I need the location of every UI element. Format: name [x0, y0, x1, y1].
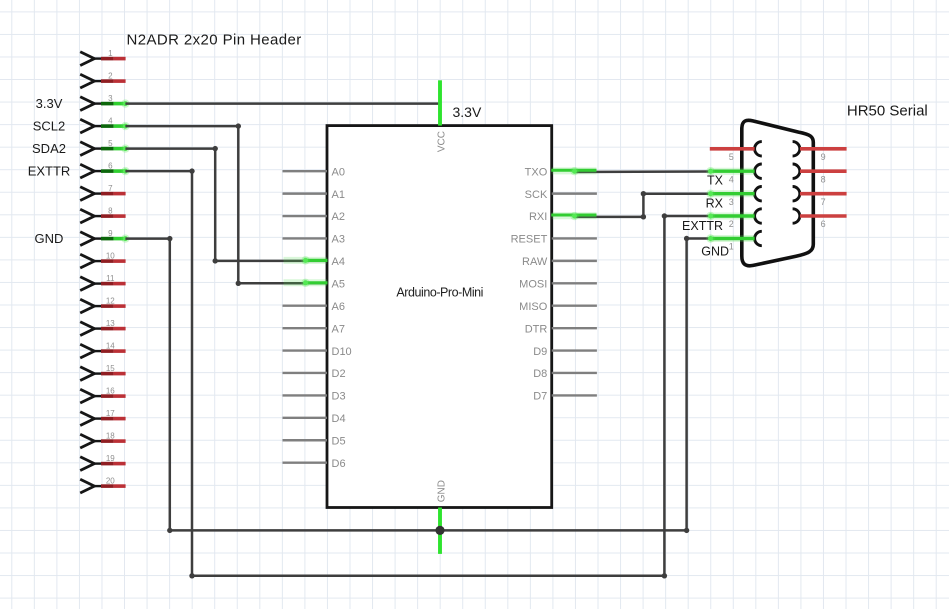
- svg-text:5: 5: [729, 152, 734, 162]
- svg-text:2: 2: [729, 219, 734, 229]
- svg-text:RXI: RXI: [529, 211, 547, 223]
- svg-text:17: 17: [106, 409, 115, 418]
- svg-text:A0: A0: [332, 166, 345, 178]
- svg-text:8: 8: [108, 207, 113, 216]
- U1 pin A1: [283, 189, 345, 201]
- svg-text:3.3V: 3.3V: [453, 104, 482, 120]
- wire 3.3V: header pin3 to VCC: [125, 102, 439, 105]
- J2 pin 5: [710, 142, 762, 162]
- header J1 pin 5: [80, 139, 129, 156]
- svg-text:7: 7: [108, 184, 113, 193]
- wire GND: header pin9 to HR50 pin1 via GND leg junction: [125, 236, 710, 533]
- U1 pin MOSI: [519, 279, 597, 291]
- J2 pin 4: [706, 164, 762, 184]
- svg-text:D8: D8: [533, 368, 547, 380]
- header J1 pin 15: [80, 364, 125, 381]
- wire RX: RXI to HR50 pin3: [575, 191, 711, 220]
- header J1 pin 16: [80, 387, 125, 404]
- svg-text:D7: D7: [533, 391, 547, 403]
- header J1 pin 4: [80, 117, 129, 134]
- U1 pin RESET: [511, 234, 597, 246]
- header J1 pin 6: [80, 162, 129, 179]
- svg-text:7: 7: [821, 197, 826, 207]
- svg-text:6: 6: [108, 162, 113, 171]
- svg-text:13: 13: [106, 319, 115, 328]
- svg-text:6: 6: [821, 219, 826, 229]
- svg-text:4: 4: [108, 117, 113, 126]
- svg-text:D2: D2: [332, 368, 346, 380]
- svg-text:19: 19: [106, 454, 115, 463]
- U1 pin MISO: [519, 301, 597, 313]
- svg-text:GND: GND: [437, 480, 448, 502]
- svg-text:RX: RX: [706, 196, 724, 210]
- U1 pin RXI (connected): [529, 211, 597, 223]
- U1 pin D2: [283, 368, 346, 380]
- svg-text:HR50 Serial: HR50 Serial: [847, 102, 928, 119]
- svg-text:D4: D4: [332, 413, 346, 425]
- U1 pin VCC (top): [437, 80, 448, 152]
- svg-text:A6: A6: [332, 301, 345, 313]
- svg-text:18: 18: [106, 432, 115, 441]
- svg-text:14: 14: [106, 342, 115, 351]
- svg-text:VCC: VCC: [437, 131, 448, 152]
- wire TX: TXO to HR50 pin4: [575, 170, 711, 173]
- svg-text:EXTTR: EXTTR: [682, 219, 723, 233]
- header J1 pin 1: [80, 49, 125, 66]
- U1 pin A5 (connected): [284, 279, 345, 291]
- J2 pin 3: [706, 187, 762, 207]
- J2 pin 2: [706, 209, 762, 229]
- header J1 pin 9: [80, 229, 129, 246]
- svg-text:A3: A3: [332, 234, 345, 246]
- U1 pin D4: [283, 413, 346, 425]
- svg-text:TX: TX: [707, 173, 724, 187]
- wire SDA2: header pin5 to A4: [125, 146, 327, 264]
- U1 pin RAW: [522, 256, 597, 268]
- svg-text:A2: A2: [332, 211, 345, 223]
- U1 pin D8: [533, 368, 597, 380]
- svg-text:RAW: RAW: [522, 256, 548, 268]
- header J1 pin 8: [80, 207, 125, 224]
- svg-text:MISO: MISO: [519, 301, 548, 313]
- J2 pin 6: [793, 209, 847, 229]
- header J1 pin 10: [80, 252, 125, 269]
- IC U1 Arduino-Pro-Mini body: [327, 126, 552, 508]
- header J1 pin 17: [80, 409, 125, 426]
- U1 pin A6: [283, 301, 345, 313]
- svg-text:DTR: DTR: [525, 323, 548, 335]
- svg-text:SCL2: SCL2: [33, 118, 66, 133]
- U1 pin A2: [283, 211, 345, 223]
- svg-text:SCK: SCK: [525, 189, 548, 201]
- J2 pin 7: [793, 187, 847, 207]
- svg-text:N2ADR 2x20 Pin Header: N2ADR 2x20 Pin Header: [127, 32, 302, 49]
- svg-text:Arduino-Pro-Mini: Arduino-Pro-Mini: [396, 285, 483, 299]
- U1 pin A7: [283, 323, 345, 335]
- svg-text:3: 3: [108, 94, 113, 103]
- header J1 pin 18: [80, 432, 125, 449]
- svg-text:EXTTR: EXTTR: [28, 163, 71, 178]
- U1 pin D10: [283, 346, 352, 358]
- svg-text:8: 8: [821, 174, 826, 184]
- svg-text:A4: A4: [332, 256, 345, 268]
- header J1 pin 13: [80, 319, 125, 336]
- svg-text:4: 4: [729, 174, 734, 184]
- U1 pin D9: [533, 346, 597, 358]
- U1 pin D3: [283, 391, 346, 403]
- U1 pin SCK: [525, 189, 597, 201]
- svg-text:GND: GND: [35, 231, 64, 246]
- header J1 pin 12: [80, 297, 125, 314]
- svg-text:15: 15: [106, 364, 115, 373]
- U1 pin D6: [283, 458, 346, 470]
- svg-text:11: 11: [106, 274, 115, 283]
- svg-text:1: 1: [108, 49, 113, 58]
- wire EXTTR: header pin6 to HR50 pin2: [125, 168, 710, 578]
- svg-text:A7: A7: [332, 323, 345, 335]
- U1 pin A0: [283, 166, 345, 178]
- header J1 pin 7: [80, 184, 125, 201]
- svg-text:MOSI: MOSI: [519, 279, 547, 291]
- svg-text:D6: D6: [332, 458, 346, 470]
- svg-text:D10: D10: [332, 346, 352, 358]
- header J1 pin 11: [80, 274, 125, 291]
- header J1 pin 20: [80, 477, 125, 494]
- svg-text:GND: GND: [701, 245, 729, 259]
- svg-text:1: 1: [729, 242, 734, 252]
- svg-text:20: 20: [106, 477, 115, 486]
- U1 pin GND (bottom): [437, 480, 448, 554]
- J2 pin 9: [793, 142, 847, 162]
- svg-text:3: 3: [729, 197, 734, 207]
- header J1 pin 19: [80, 454, 125, 471]
- svg-text:RESET: RESET: [511, 234, 548, 246]
- U1 pin A4 (connected): [284, 256, 345, 268]
- J2 pin 8: [793, 164, 847, 184]
- svg-text:9: 9: [821, 152, 826, 162]
- junction GND wire x GND leg: [435, 526, 444, 535]
- svg-text:9: 9: [108, 229, 113, 238]
- svg-text:TXO: TXO: [525, 166, 548, 178]
- svg-text:A5: A5: [332, 279, 345, 291]
- svg-text:D3: D3: [332, 391, 346, 403]
- wire SCL2: header pin4 to A5: [125, 123, 327, 286]
- svg-text:D9: D9: [533, 346, 547, 358]
- svg-text:D5: D5: [332, 435, 346, 447]
- J2 pin 1: [706, 231, 762, 251]
- svg-text:3.3V: 3.3V: [36, 96, 63, 111]
- svg-text:10: 10: [106, 252, 115, 261]
- U1 pin DTR: [525, 323, 597, 335]
- U1 pin D5: [283, 435, 346, 447]
- header J1 pin 3: [80, 94, 129, 111]
- svg-text:12: 12: [106, 297, 115, 306]
- svg-text:5: 5: [108, 139, 113, 148]
- connector J2 HR50 Serial body: [742, 120, 814, 266]
- header J1 pin 2: [80, 72, 125, 89]
- svg-text:16: 16: [106, 387, 115, 396]
- header J1 pin 14: [80, 342, 125, 359]
- U1 pin TXO (connected): [525, 166, 597, 178]
- svg-text:2: 2: [108, 72, 113, 81]
- svg-text:SDA2: SDA2: [32, 141, 66, 156]
- U1 pin A3: [283, 234, 345, 246]
- svg-text:A1: A1: [332, 189, 345, 201]
- U1 pin D7: [533, 391, 597, 403]
